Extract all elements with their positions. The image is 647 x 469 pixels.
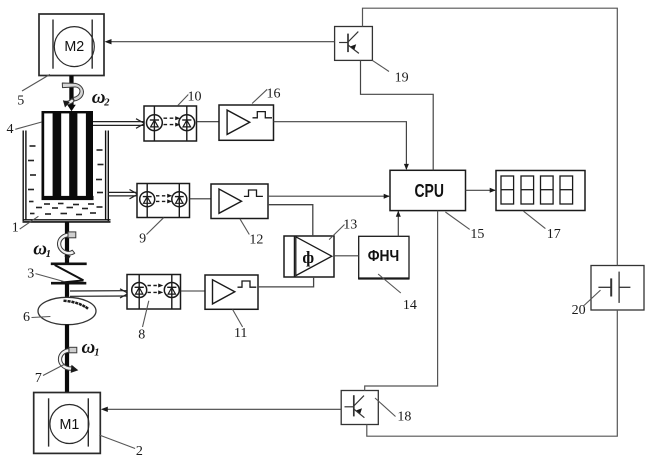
motor driver 19 — [335, 27, 373, 61]
label 10 leader — [178, 95, 189, 106]
svg-text:15: 15 — [470, 227, 484, 242]
svg-text:M1: M1 — [59, 417, 79, 433]
wire driver19 to M2 — [110, 41, 335, 43]
battery 20 — [591, 266, 644, 311]
disk perforations — [63, 299, 88, 309]
label 6 leader — [32, 317, 51, 318]
svg-text:8: 8 — [138, 327, 145, 342]
label 19 leader — [372, 60, 389, 71]
label 14 leader — [378, 274, 401, 293]
wire shaper11 to phase detector — [258, 277, 314, 287]
optocoupler 9 — [137, 184, 190, 218]
label 17 leader — [524, 211, 546, 228]
label 13 leader — [329, 225, 344, 240]
motor M2 — [39, 14, 104, 76]
shaft spring to disk — [65, 284, 69, 300]
label 7 leader — [43, 364, 65, 376]
wire opto8 to shaper11 — [181, 290, 206, 292]
svg-text:1: 1 — [12, 220, 19, 235]
svg-text:3: 3 — [27, 267, 34, 282]
wire shaper12 to phase detector — [268, 205, 313, 236]
label 11 leader — [233, 310, 243, 328]
wire shaper16 to CPU — [274, 122, 407, 169]
optocoupler 10 — [144, 106, 197, 141]
liquid level dashes — [28, 146, 104, 215]
svg-text:1: 1 — [46, 249, 51, 260]
wire opto10 to shaper16 — [197, 121, 220, 123]
label 9 leader — [147, 218, 164, 235]
label 3 leader — [36, 274, 64, 282]
pulse shaper 12 — [211, 184, 268, 219]
label 20 leader — [584, 290, 601, 305]
vessel (1) walls — [23, 131, 111, 222]
svg-text:17: 17 — [547, 227, 561, 242]
label 4 leader — [15, 122, 41, 129]
wire CPU to driver19 — [361, 60, 434, 170]
label 15 leader — [445, 212, 469, 229]
optocoupler 8 — [127, 275, 181, 310]
svg-text:11: 11 — [234, 326, 247, 341]
svg-text:ф: ф — [302, 248, 314, 267]
svg-text:6: 6 — [23, 310, 30, 325]
wire CPU to driver18 — [365, 211, 438, 391]
wire driver18 to M1 — [106, 408, 341, 410]
svg-text:10: 10 — [188, 90, 202, 105]
motor driver 18 — [341, 391, 378, 425]
label 5 leader — [22, 74, 50, 91]
wire driver19 top to right bus — [363, 8, 618, 265]
svg-text:18: 18 — [397, 410, 411, 425]
svg-text:16: 16 — [267, 86, 281, 101]
pulse shaper 11 — [205, 275, 258, 309]
double-line arrow disk to optocoupler 8 — [70, 289, 128, 298]
measuring disk (6) — [38, 297, 96, 324]
wire driver18 to battery bus — [367, 310, 618, 436]
svg-text:9: 9 — [139, 232, 146, 247]
svg-text:5: 5 — [17, 94, 24, 109]
svg-text:13: 13 — [343, 217, 357, 232]
label 2 leader — [99, 435, 135, 449]
wire CPU to display — [466, 189, 496, 191]
svg-text:1: 1 — [94, 348, 99, 359]
torsion spring (3) — [51, 264, 87, 283]
svg-text:CPU: CPU — [414, 180, 444, 201]
svg-text:4: 4 — [7, 122, 14, 137]
wire LPF to CPU — [397, 212, 399, 237]
shaft disk to M1 — [65, 325, 69, 393]
rotor with plates (4) — [42, 111, 94, 200]
swirl omega1 upper — [57, 232, 75, 261]
double-line arrow rotor to optocoupler 10 — [93, 119, 145, 129]
svg-text:20: 20 — [572, 303, 586, 318]
svg-text:M2: M2 — [64, 39, 84, 55]
shaft vessel to spring — [65, 222, 69, 264]
svg-text:7: 7 — [35, 371, 42, 386]
phase detector 13 — [284, 236, 334, 277]
svg-text:12: 12 — [249, 233, 263, 248]
svg-text:19: 19 — [395, 71, 409, 86]
display 17 — [496, 171, 585, 211]
wire phase detector to LPF — [334, 255, 359, 257]
label 16 leader — [252, 89, 267, 103]
CPU 15 — [390, 170, 466, 210]
svg-text:14: 14 — [403, 298, 417, 313]
svg-text:2: 2 — [103, 98, 110, 109]
swirl omega1 lower — [58, 347, 78, 373]
label 8 leader — [143, 301, 149, 327]
label 1 leader — [20, 216, 39, 229]
svg-text:ФНЧ: ФНЧ — [368, 248, 400, 265]
low-pass filter 14 — [358, 236, 409, 278]
wire shaper12 to CPU — [268, 195, 389, 197]
double-line arrow vessel to optocoupler 9 — [108, 190, 138, 199]
shaft M2 to rotor — [69, 76, 73, 107]
angular velocity swirl omega2 — [62, 83, 83, 108]
svg-text:2: 2 — [136, 444, 143, 459]
wire opto9 to shaper12 — [190, 198, 212, 200]
motor M1 — [34, 393, 101, 454]
label 18 leader — [375, 398, 396, 417]
label 12 leader — [240, 219, 249, 235]
pulse shaper 16 — [219, 105, 274, 140]
